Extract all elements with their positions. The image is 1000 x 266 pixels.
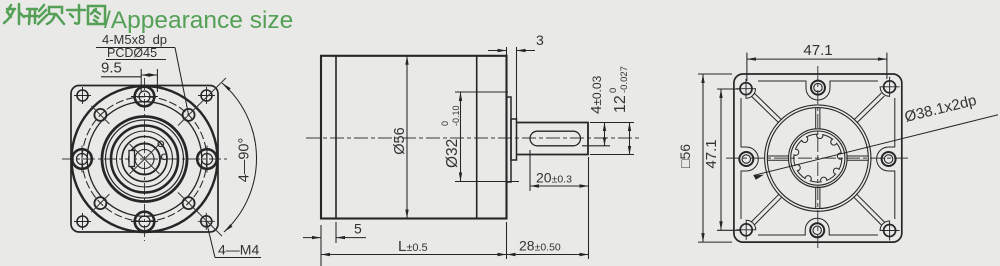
inner wall top edge xyxy=(758,81,878,100)
dim 28 text xyxy=(519,238,561,254)
dim 20 dimension line xyxy=(530,185,589,187)
label 4-M4 xyxy=(218,242,259,258)
dim d56 text xyxy=(392,127,408,154)
dim L dimension line xyxy=(321,254,507,256)
front plate line xyxy=(335,56,337,219)
dim 28 extension line xyxy=(506,222,508,259)
svg-text:□56: □56 xyxy=(677,144,693,168)
dim d32 dimension line xyxy=(460,92,462,182)
dim 47.1 left text (rotated) xyxy=(703,139,720,168)
circle r22.5 xyxy=(122,137,167,182)
leader to bottom-right corner hole xyxy=(206,221,215,257)
dim 5 extension lines xyxy=(320,225,322,266)
corner screw hole bottom-right xyxy=(880,221,900,241)
dim 3 extension lines xyxy=(506,47,508,57)
dim 12 text with tolerance (rotated) xyxy=(608,66,630,113)
rib horizontal left xyxy=(767,156,788,160)
svg-text:0: 0 xyxy=(608,88,619,93)
dim 47.1 left: extension lines xyxy=(717,88,740,90)
rib vertical bottom xyxy=(816,187,820,208)
centerline vertical xyxy=(817,66,819,250)
dim 5 arrows outside xyxy=(303,237,321,239)
svg-text:PCDØ45: PCDØ45 xyxy=(107,46,157,60)
outer flange circle xyxy=(72,86,218,232)
inner wall bottom edge xyxy=(758,218,878,235)
rib horizontal right xyxy=(847,156,868,160)
label 4-M5x8 dp xyxy=(102,32,167,47)
dim 5 text xyxy=(354,221,362,237)
dim 28 dimension line xyxy=(507,254,589,256)
M5 mounting hole bottom xyxy=(131,212,158,232)
rear hub xyxy=(511,119,517,160)
inner wall right edge xyxy=(877,98,895,219)
svg-text:0: 0 xyxy=(440,121,450,126)
svg-text:3: 3 xyxy=(536,32,544,48)
dim square56 dimension line xyxy=(702,74,704,242)
centerline horizontal xyxy=(62,158,228,160)
dim L text xyxy=(398,238,428,255)
90 degree dimension arc xyxy=(222,83,257,232)
keyway rectangle xyxy=(129,151,135,167)
label d38.1x2dp leader xyxy=(754,115,999,176)
图 xyxy=(88,6,105,24)
尺 xyxy=(47,7,64,24)
inner circle pair xyxy=(789,129,848,188)
corner screw hole bottom-left xyxy=(736,220,756,240)
pilot boss circle d32 xyxy=(102,117,187,202)
dim square56 text (rotated) xyxy=(677,144,693,168)
inner wall left edge xyxy=(741,98,758,219)
middle hole top xyxy=(811,81,825,95)
set screw hole 2 xyxy=(162,154,168,160)
dim 47.1 left dimension line xyxy=(720,89,722,230)
middle hole right xyxy=(882,152,896,166)
centerline xyxy=(306,137,642,139)
housing square outline xyxy=(734,74,902,242)
svg-text:4—M4: 4—M4 xyxy=(218,242,259,258)
middle hole bottom xyxy=(810,223,824,237)
dim 47.1 top: extension lines xyxy=(746,53,748,81)
dim 20 text xyxy=(536,170,572,186)
形 xyxy=(25,9,38,24)
dim 20 extension lines xyxy=(529,150,531,191)
dim 4 dimension line xyxy=(604,123,606,146)
endbell joint line xyxy=(476,56,478,219)
corner screw hole top-left xyxy=(736,79,756,99)
dim d56: dimension line xyxy=(406,56,408,219)
rib diagonal bottom-left xyxy=(751,194,782,225)
corner screw hole top-right xyxy=(880,77,900,97)
dim 47.1 top text xyxy=(803,42,832,59)
dim square56: extension lines xyxy=(698,73,732,75)
circle r39 xyxy=(106,120,184,198)
diagonal spokes at hub xyxy=(130,144,160,174)
arc arrowhead bottom xyxy=(224,224,233,232)
svg-text:Ø56: Ø56 xyxy=(392,127,408,154)
circle r28 xyxy=(117,131,173,187)
svg-text:4±0.03: 4±0.03 xyxy=(588,75,605,114)
central circle outer pair xyxy=(765,105,871,211)
rib diagonal bottom-right xyxy=(853,194,884,225)
svg-text:47.1: 47.1 xyxy=(703,139,720,168)
外 xyxy=(4,5,15,23)
shaft extension lines right xyxy=(590,122,634,124)
corner hole bottom-left (M4) xyxy=(74,213,91,230)
internal spline gear profile d38.1 xyxy=(794,134,842,182)
svg-text:4-M5x8 dp: 4-M5x8 dp xyxy=(102,32,167,47)
label PCD45 xyxy=(107,46,157,60)
dim d32 extension lines xyxy=(455,91,508,93)
tapped hole SW xyxy=(91,194,109,212)
M5 mounting hole left xyxy=(72,146,92,173)
M5 mounting hole right xyxy=(197,146,217,173)
shaft xyxy=(517,123,589,155)
svg-text:9.5: 9.5 xyxy=(101,60,122,77)
rib vertical top xyxy=(816,108,820,129)
M5 mounting hole top xyxy=(131,87,158,107)
inner bore circle xyxy=(135,150,154,169)
svg-text:5: 5 xyxy=(354,221,362,237)
corner hole bottom-right (M4) xyxy=(198,213,215,230)
tapped hole SE xyxy=(178,193,222,237)
dim d32 text with tolerance xyxy=(440,105,461,168)
shaft flat slot xyxy=(530,131,581,146)
rib diagonal top-left xyxy=(751,93,781,123)
label d38.1x2dp text (slanted) xyxy=(903,92,978,126)
dimension 9.5 xyxy=(101,60,122,77)
dim 3 arrows outside xyxy=(488,50,507,52)
flange square outline xyxy=(71,86,218,233)
svg-text:-0.027: -0.027 xyxy=(619,66,630,93)
title chinese characters (drawn strokes): 外形尺寸图 xyxy=(4,4,105,24)
svg-text:/Appearance size: /Appearance size xyxy=(104,7,293,34)
dim 3 text xyxy=(536,32,544,48)
centerline horizontal xyxy=(726,157,910,159)
PCD45 bolt circle (dashed) xyxy=(82,97,207,222)
svg-text:12: 12 xyxy=(612,95,629,113)
flange face circle xyxy=(87,102,202,217)
dim 12 dimension line xyxy=(629,123,631,155)
arc arrowhead top xyxy=(222,83,231,91)
middle hole left xyxy=(739,152,753,166)
tapped hole NE (M5x8) xyxy=(178,78,226,126)
shaft bore circle xyxy=(129,144,160,175)
motor body outline xyxy=(321,56,507,219)
centerline vertical xyxy=(144,78,146,241)
rib diagonal top-right xyxy=(854,93,884,123)
rear boss d32 xyxy=(507,97,512,182)
corner hole top-right (M4) xyxy=(198,87,215,104)
svg-text:47.1: 47.1 xyxy=(803,42,832,59)
寸 xyxy=(67,5,85,24)
dim 4 text (rotated) xyxy=(588,75,605,114)
tapped hole NW xyxy=(91,106,109,124)
svg-text:4—90°: 4—90° xyxy=(237,138,253,183)
circle r33.5 xyxy=(111,126,178,193)
dim 47.1 top dimension line xyxy=(747,58,887,60)
svg-text:-0.10: -0.10 xyxy=(451,105,461,126)
set screw hole 1 xyxy=(158,141,164,147)
label 4-90deg (rotated) xyxy=(237,138,253,183)
corner hole top-left (M4) xyxy=(74,87,91,104)
leader to NE tapped hole xyxy=(175,48,189,115)
svg-text:Ø32: Ø32 xyxy=(444,139,461,168)
